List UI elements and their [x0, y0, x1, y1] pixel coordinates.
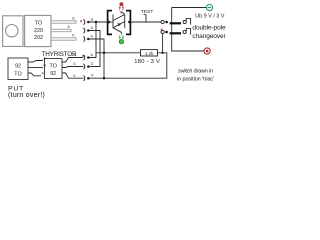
- svg-text:G: G: [73, 62, 76, 66]
- svg-text:TO: TO: [14, 72, 21, 78]
- svg-text:switch drawn in: switch drawn in: [178, 68, 213, 74]
- svg-text:double-pole: double-pole: [192, 24, 226, 31]
- svg-text:92: 92: [50, 71, 56, 77]
- svg-text:92: 92: [15, 64, 21, 70]
- svg-text:Ub 9 V / 3 V: Ub 9 V / 3 V: [195, 13, 225, 19]
- svg-text:TO: TO: [35, 21, 42, 27]
- svg-text:TO: TO: [50, 64, 57, 70]
- svg-text:220: 220: [34, 28, 43, 34]
- svg-text:1.2k: 1.2k: [145, 51, 154, 56]
- svg-text:180 - 3 V: 180 - 3 V: [134, 59, 160, 65]
- svg-text:202: 202: [34, 35, 43, 41]
- svg-text:in position ‘triac’: in position ‘triac’: [177, 76, 214, 82]
- svg-text:G: G: [43, 63, 46, 67]
- svg-text:G: G: [72, 16, 75, 20]
- svg-text:(turn over!): (turn over!): [8, 90, 45, 99]
- svg-text:G: G: [91, 17, 94, 21]
- svg-text:G: G: [91, 62, 94, 66]
- svg-text:changeover: changeover: [192, 33, 226, 40]
- svg-text:TEST: TEST: [141, 9, 154, 15]
